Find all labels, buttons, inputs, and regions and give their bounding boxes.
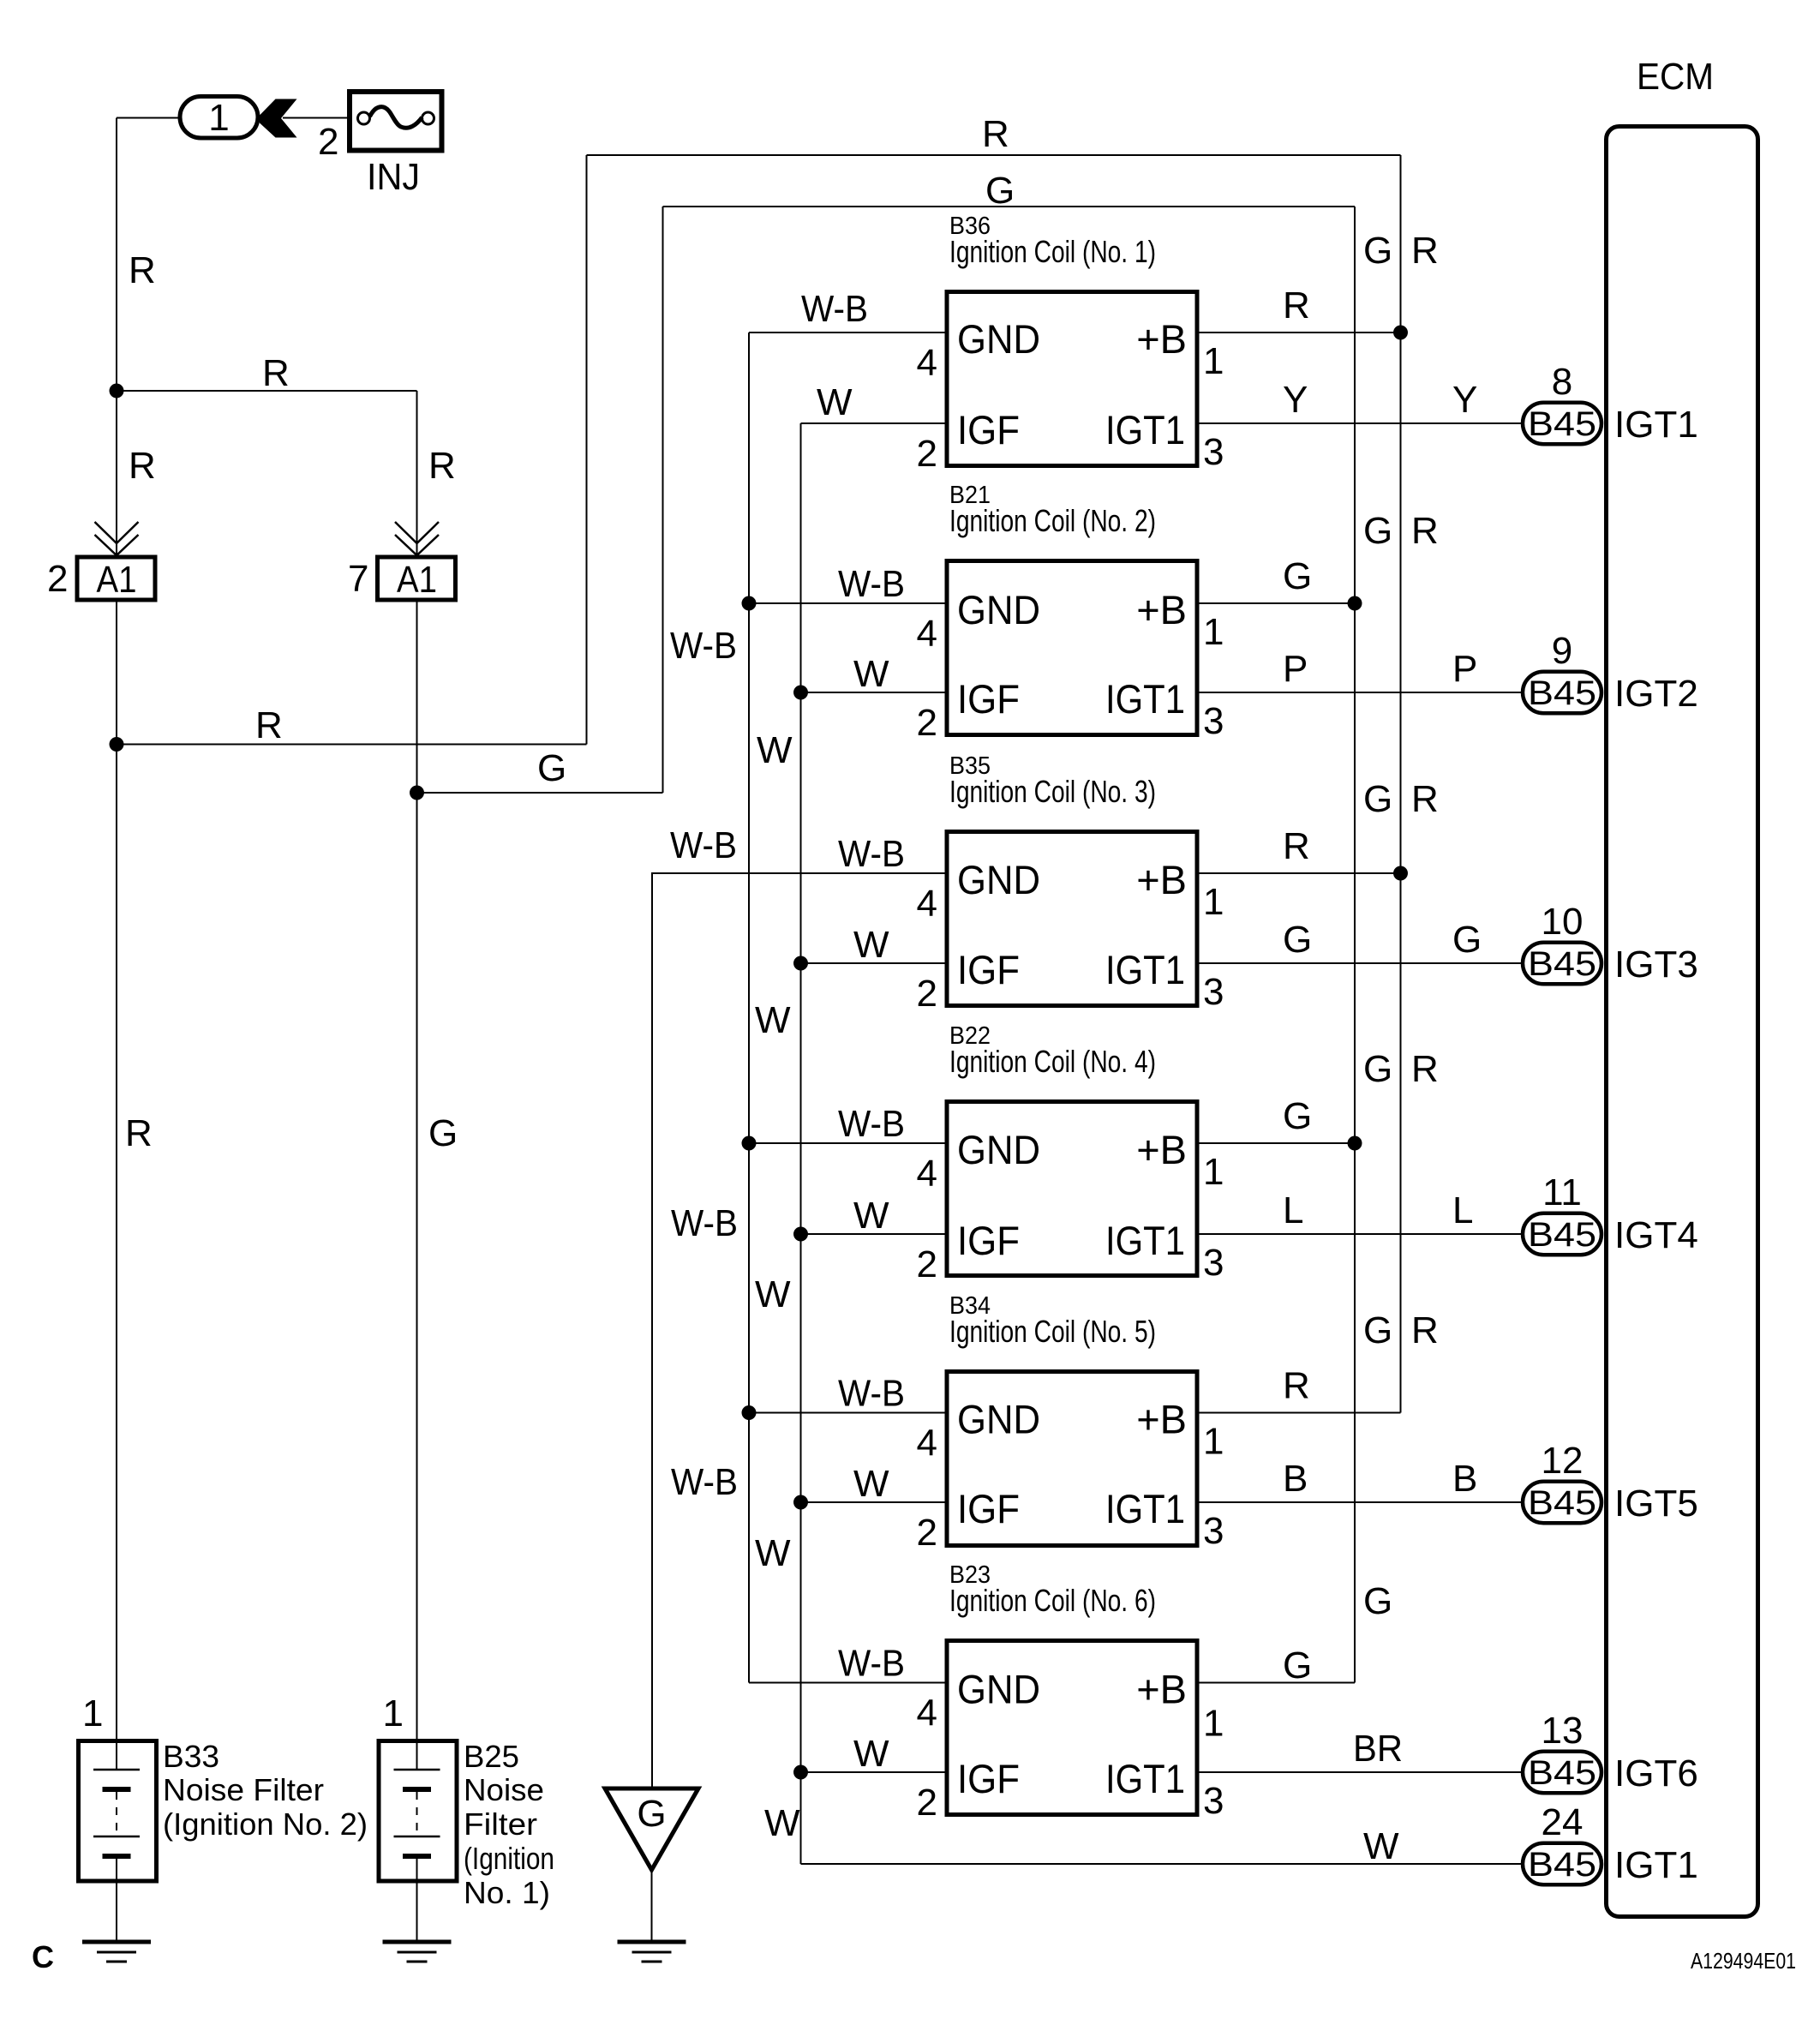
svg-text:W-B: W-B bbox=[670, 824, 737, 866]
svg-text:GND: GND bbox=[957, 1667, 1040, 1712]
connector A1 (pin 7) bbox=[378, 557, 456, 600]
svg-text:G: G bbox=[637, 1793, 666, 1835]
ground symbol under triangle bbox=[618, 1940, 686, 1944]
svg-text:+B: +B bbox=[1136, 1667, 1187, 1712]
connector pill 1 (fuse link) bbox=[180, 97, 258, 139]
wire W-B to GND bbox=[749, 602, 947, 604]
node G bus / coil4 +B bbox=[1348, 1136, 1362, 1151]
svg-text:B45: B45 bbox=[1528, 1754, 1596, 1792]
svg-text:IGT2: IGT2 bbox=[1614, 673, 1698, 715]
ignition coil B34 (No. 5) bbox=[947, 1372, 1197, 1546]
noise filter B25 box bbox=[379, 1741, 457, 1882]
connector pill B45 pin 8 bbox=[1523, 403, 1601, 445]
fuse element symbol bbox=[358, 112, 370, 124]
svg-text:3: 3 bbox=[1203, 431, 1224, 473]
node R bus / coil1 +B bbox=[1393, 326, 1408, 340]
wire arrow to INJ fuse bbox=[283, 117, 348, 119]
svg-text:R: R bbox=[1411, 778, 1439, 820]
svg-text:4: 4 bbox=[917, 1153, 937, 1195]
wire A1-2 down to noise filter B33 bbox=[116, 602, 117, 1740]
svg-text:1: 1 bbox=[1203, 1421, 1224, 1463]
node G bus / coil2 +B bbox=[1348, 596, 1362, 611]
capacitor symbol inside B25 bbox=[416, 1739, 418, 1770]
svg-text:W: W bbox=[755, 1273, 791, 1315]
svg-text:R: R bbox=[125, 1112, 153, 1154]
svg-text:ECM: ECM bbox=[1637, 56, 1714, 98]
svg-text:4: 4 bbox=[917, 1423, 937, 1465]
svg-text:R: R bbox=[1411, 510, 1439, 552]
svg-text:W: W bbox=[853, 1733, 889, 1775]
svg-text:2: 2 bbox=[917, 1243, 937, 1285]
wire G from +B to bus bbox=[1197, 1682, 1355, 1684]
svg-text:Ignition Coil (No. 2): Ignition Coil (No. 2) bbox=[949, 503, 1156, 538]
wire R riser up bbox=[586, 155, 588, 745]
svg-text:W: W bbox=[853, 653, 889, 695]
svg-text:+B: +B bbox=[1136, 857, 1187, 902]
node W-B bus / coil5 GND bbox=[742, 1405, 757, 1420]
ignition coil B23 (No. 6) bbox=[947, 1641, 1197, 1815]
svg-text:3: 3 bbox=[1203, 1780, 1224, 1822]
svg-text:Noise: Noise bbox=[464, 1772, 544, 1807]
svg-text:IGF: IGF bbox=[957, 1218, 1020, 1263]
svg-text:P: P bbox=[1452, 648, 1477, 690]
svg-text:L: L bbox=[1283, 1189, 1303, 1231]
svg-text:1: 1 bbox=[1203, 1703, 1224, 1745]
node W bus / coil3 IGF bbox=[793, 956, 808, 971]
svg-text:W-B: W-B bbox=[671, 1461, 738, 1503]
wire W to IGF bbox=[801, 1233, 948, 1235]
svg-text:IGF: IGF bbox=[957, 676, 1020, 722]
svg-text:IGT6: IGT6 bbox=[1614, 1752, 1698, 1794]
svg-text:W: W bbox=[853, 924, 889, 966]
wire W to IGF bbox=[801, 692, 948, 693]
svg-text:IGT3: IGT3 bbox=[1614, 944, 1698, 986]
svg-text:1: 1 bbox=[1203, 340, 1224, 382]
svg-text:G: G bbox=[1283, 1645, 1312, 1687]
wire W-B to GND bbox=[749, 1682, 947, 1684]
svg-text:Ignition Coil (No. 6): Ignition Coil (No. 6) bbox=[949, 1583, 1156, 1618]
connector pill B45 pin 10 bbox=[1523, 943, 1601, 985]
svg-text:GND: GND bbox=[957, 1397, 1040, 1442]
capacitor symbol inside B33 bbox=[116, 1739, 117, 1770]
svg-text:4: 4 bbox=[917, 1692, 937, 1734]
svg-text:3: 3 bbox=[1203, 1242, 1224, 1284]
node junction G bbox=[410, 786, 424, 800]
svg-text:B: B bbox=[1452, 1458, 1477, 1500]
svg-text:G: G bbox=[1363, 1580, 1392, 1622]
ignition coil B36 (No. 1) bbox=[947, 292, 1197, 466]
svg-text:BR: BR bbox=[1353, 1728, 1403, 1770]
connector pill B45 pin 12 bbox=[1523, 1482, 1601, 1524]
node W bus / coil2 IGF bbox=[793, 686, 808, 700]
svg-text:G: G bbox=[537, 747, 566, 789]
ignition coil B22 (No. 4) bbox=[947, 1102, 1197, 1276]
svg-text:Ignition Coil (No. 5): Ignition Coil (No. 5) bbox=[949, 1314, 1156, 1349]
node W bus / coil5 IGF bbox=[793, 1495, 808, 1510]
wire R bus vertical bbox=[1400, 155, 1402, 1413]
svg-text:IGT4: IGT4 bbox=[1614, 1214, 1698, 1256]
svg-text:B25: B25 bbox=[464, 1739, 519, 1774]
svg-text:W: W bbox=[757, 729, 793, 771]
svg-text:G: G bbox=[1283, 919, 1312, 961]
connector pill B45 pin 24 bbox=[1523, 1843, 1601, 1885]
svg-text:B45: B45 bbox=[1528, 1846, 1596, 1884]
node junction R split bbox=[110, 384, 124, 398]
svg-text:2: 2 bbox=[917, 1782, 937, 1824]
svg-text:W: W bbox=[817, 381, 853, 423]
svg-text:10: 10 bbox=[1542, 901, 1584, 943]
svg-text:W: W bbox=[755, 999, 791, 1041]
wire R from +B to bus bbox=[1197, 872, 1401, 874]
svg-text:G: G bbox=[1283, 1095, 1312, 1137]
wire down into A1 7 bbox=[416, 391, 418, 554]
wire R top horizontal bbox=[587, 154, 1401, 156]
svg-text:3: 3 bbox=[1203, 700, 1224, 742]
svg-text:INJ: INJ bbox=[367, 156, 420, 198]
svg-text:1: 1 bbox=[383, 1692, 404, 1734]
svg-text:3: 3 bbox=[1203, 1510, 1224, 1552]
svg-text:G: G bbox=[1363, 1048, 1392, 1090]
svg-text:W-B: W-B bbox=[838, 563, 905, 605]
wire from IGT1 to ECM pill bbox=[1197, 1233, 1523, 1235]
svg-text:R: R bbox=[129, 445, 156, 487]
node W-B bus / coil2 GND bbox=[742, 596, 757, 611]
svg-text:R: R bbox=[129, 249, 156, 291]
svg-text:IGT1: IGT1 bbox=[1105, 1486, 1185, 1531]
ignition coil B21 (No. 2) bbox=[947, 561, 1197, 735]
svg-text:Y: Y bbox=[1452, 379, 1477, 421]
svg-text:C: C bbox=[32, 1939, 54, 1974]
connector pill B45 pin 9 bbox=[1523, 672, 1601, 714]
svg-text:1: 1 bbox=[1203, 1151, 1224, 1193]
wire W to IGF bbox=[801, 962, 948, 964]
svg-text:GND: GND bbox=[957, 316, 1040, 362]
svg-text:L: L bbox=[1452, 1189, 1473, 1231]
ground symbol under B33 bbox=[82, 1940, 151, 1944]
svg-text:Ignition Coil (No. 4): Ignition Coil (No. 4) bbox=[949, 1044, 1156, 1079]
wire from IGT1 to ECM pill bbox=[1197, 692, 1523, 693]
connector pill B45 pin 11 bbox=[1523, 1213, 1601, 1255]
svg-text:P: P bbox=[1283, 648, 1308, 690]
svg-text:W: W bbox=[853, 1463, 889, 1505]
wire W-B left branch down to ground G bbox=[651, 872, 653, 1788]
wire G top horizontal bbox=[663, 206, 1356, 207]
wire G from +B to bus bbox=[1197, 602, 1355, 604]
svg-text:13: 13 bbox=[1542, 1710, 1584, 1752]
wire W-B bus vertical bbox=[748, 333, 750, 1683]
wire R horizontal to riser bbox=[117, 744, 587, 746]
connector pill B45 pin 13 bbox=[1523, 1752, 1601, 1794]
svg-text:B45: B45 bbox=[1528, 1484, 1596, 1522]
svg-text:W-B: W-B bbox=[670, 625, 737, 667]
wire R from +B to bus bbox=[1197, 1412, 1401, 1414]
svg-text:GND: GND bbox=[957, 1127, 1040, 1172]
svg-text:W: W bbox=[1363, 1825, 1399, 1867]
svg-text:G: G bbox=[1363, 778, 1392, 820]
svg-text:A1: A1 bbox=[97, 559, 137, 601]
svg-text:2: 2 bbox=[47, 558, 68, 600]
svg-text:IGT5: IGT5 bbox=[1614, 1483, 1698, 1525]
svg-text:R: R bbox=[1411, 1048, 1439, 1090]
svg-text:G: G bbox=[1363, 1309, 1392, 1351]
wire from IGT1 to ECM pill bbox=[1197, 1501, 1523, 1503]
wire A1-7 down to noise filter B25 bbox=[416, 602, 418, 1740]
arrow into connector A1 pin 7 bbox=[395, 522, 439, 543]
wire fuse pill to left riser bbox=[117, 117, 178, 119]
wire from IGT1 to ECM pill bbox=[1197, 1771, 1523, 1773]
svg-text:Y: Y bbox=[1283, 379, 1308, 421]
svg-text:B45: B45 bbox=[1528, 674, 1596, 712]
svg-text:A129494E01: A129494E01 bbox=[1691, 1948, 1796, 1974]
wire W-B to GND bbox=[652, 872, 947, 874]
svg-text:B: B bbox=[1283, 1458, 1308, 1500]
svg-text:W-B: W-B bbox=[671, 1202, 738, 1244]
wire G horizontal to riser bbox=[417, 792, 663, 794]
svg-text:IGF: IGF bbox=[957, 1486, 1020, 1531]
svg-text:G: G bbox=[985, 170, 1015, 212]
wire W-B to GND bbox=[749, 332, 947, 333]
ground triangle G bbox=[605, 1788, 698, 1870]
svg-text:4: 4 bbox=[917, 613, 937, 655]
svg-text:GND: GND bbox=[957, 857, 1040, 902]
svg-text:8: 8 bbox=[1552, 361, 1572, 403]
svg-text:3: 3 bbox=[1203, 971, 1224, 1013]
wire W to IGF bbox=[801, 422, 948, 424]
svg-text:B33: B33 bbox=[163, 1739, 219, 1774]
svg-text:IGT1: IGT1 bbox=[1105, 676, 1185, 722]
wire triangle to ground bbox=[651, 1870, 653, 1942]
svg-text:R: R bbox=[1411, 230, 1439, 272]
wire W bottom to ECM pill 24 bbox=[801, 1863, 1524, 1865]
wire from IGT1 to ECM pill bbox=[1197, 422, 1523, 424]
svg-text:W-B: W-B bbox=[838, 1373, 905, 1415]
wire W bus vertical bbox=[800, 423, 802, 1864]
wire G bus vertical bbox=[1354, 207, 1356, 1683]
svg-text:No. 1): No. 1) bbox=[464, 1875, 550, 1910]
svg-text:W-B: W-B bbox=[838, 1643, 905, 1685]
svg-text:Ignition Coil (No. 3): Ignition Coil (No. 3) bbox=[949, 774, 1156, 809]
svg-text:R: R bbox=[1283, 285, 1310, 327]
arrow into connector A1 pin 2 bbox=[95, 522, 139, 543]
svg-text:B45: B45 bbox=[1528, 945, 1596, 983]
svg-text:Noise Filter: Noise Filter bbox=[163, 1772, 324, 1807]
wire G riser up bbox=[662, 207, 664, 793]
wire R from +B to bus bbox=[1197, 332, 1401, 333]
svg-text:12: 12 bbox=[1542, 1440, 1584, 1482]
svg-text:R: R bbox=[1283, 1365, 1310, 1407]
svg-text:B45: B45 bbox=[1528, 1216, 1596, 1254]
svg-text:IGT1: IGT1 bbox=[1105, 1756, 1185, 1801]
svg-text:IGF: IGF bbox=[957, 407, 1020, 452]
svg-text:R: R bbox=[1411, 1309, 1439, 1351]
wire from IGT1 to ECM pill bbox=[1197, 962, 1523, 964]
svg-text:IGT1: IGT1 bbox=[1105, 1218, 1185, 1263]
svg-text:W: W bbox=[764, 1802, 800, 1844]
fuse INJ box bbox=[350, 92, 442, 151]
noise filter B33 box bbox=[79, 1741, 157, 1882]
svg-text:2: 2 bbox=[917, 973, 937, 1015]
node junction R to riser bbox=[110, 737, 124, 752]
svg-text:W-B: W-B bbox=[838, 1103, 905, 1145]
svg-text:R: R bbox=[1283, 825, 1310, 867]
svg-text:W-B: W-B bbox=[801, 288, 868, 330]
wire W-B to GND bbox=[749, 1412, 947, 1414]
svg-text:+B: +B bbox=[1136, 1397, 1187, 1442]
svg-text:G: G bbox=[1363, 230, 1392, 272]
connector arrow (female terminal) bbox=[260, 99, 297, 138]
svg-text:1: 1 bbox=[82, 1692, 103, 1734]
svg-text:9: 9 bbox=[1552, 630, 1572, 672]
svg-text:W-B: W-B bbox=[838, 833, 905, 875]
wire W to IGF bbox=[801, 1501, 948, 1503]
svg-text:1: 1 bbox=[208, 97, 229, 139]
ground symbol under B25 bbox=[383, 1940, 452, 1944]
svg-text:2: 2 bbox=[917, 702, 937, 744]
wire G from +B to bus bbox=[1197, 1142, 1355, 1144]
svg-text:4: 4 bbox=[917, 342, 937, 384]
svg-text:IGF: IGF bbox=[957, 1756, 1020, 1801]
svg-text:W: W bbox=[755, 1532, 791, 1574]
svg-text:2: 2 bbox=[318, 121, 338, 163]
wire W-B to GND bbox=[749, 1142, 947, 1144]
node W bus / coil4 IGF bbox=[793, 1227, 808, 1242]
svg-text:IGT1: IGT1 bbox=[1105, 407, 1185, 452]
svg-text:Ignition Coil (No. 1): Ignition Coil (No. 1) bbox=[949, 234, 1156, 269]
svg-text:R: R bbox=[982, 113, 1009, 155]
svg-text:G: G bbox=[1452, 919, 1482, 961]
ECM box bbox=[1607, 127, 1758, 1917]
wire to ground bbox=[416, 1884, 418, 1943]
svg-text:1: 1 bbox=[1203, 611, 1224, 653]
svg-text:R: R bbox=[428, 445, 456, 487]
svg-text:1: 1 bbox=[1203, 881, 1224, 923]
node W-B bus / coil4 GND bbox=[742, 1136, 757, 1151]
svg-text:(Ignition: (Ignition bbox=[464, 1841, 554, 1876]
svg-text:+B: +B bbox=[1136, 316, 1187, 362]
svg-text:G: G bbox=[1283, 555, 1312, 597]
svg-text:2: 2 bbox=[917, 1512, 937, 1554]
wire W to IGF bbox=[801, 1771, 948, 1773]
svg-text:7: 7 bbox=[348, 558, 368, 600]
svg-text:IGT1: IGT1 bbox=[1614, 1844, 1698, 1886]
wire to ground bbox=[116, 1884, 117, 1943]
svg-text:+B: +B bbox=[1136, 1127, 1187, 1172]
node R bus / coil3 +B bbox=[1393, 866, 1408, 881]
wire R branch to A1 connector 7 bbox=[117, 390, 417, 392]
svg-text:A1: A1 bbox=[397, 559, 437, 601]
svg-text:IGT1: IGT1 bbox=[1614, 404, 1698, 446]
svg-text:+B: +B bbox=[1136, 587, 1187, 632]
svg-text:W: W bbox=[853, 1195, 889, 1237]
svg-text:R: R bbox=[255, 704, 283, 746]
svg-text:G: G bbox=[428, 1112, 458, 1154]
connector A1 (pin 2) bbox=[77, 557, 155, 600]
ignition coil B35 (No. 3) bbox=[947, 832, 1197, 1006]
svg-text:(Ignition No. 2): (Ignition No. 2) bbox=[163, 1806, 368, 1842]
svg-text:24: 24 bbox=[1542, 1801, 1584, 1843]
svg-text:Filter: Filter bbox=[464, 1806, 537, 1842]
svg-text:B45: B45 bbox=[1528, 405, 1596, 443]
svg-text:4: 4 bbox=[917, 883, 937, 925]
svg-text:G: G bbox=[1363, 510, 1392, 552]
svg-text:R: R bbox=[262, 352, 290, 394]
wire R: fuse down to A1 connector 2 bbox=[116, 118, 117, 555]
svg-text:IGF: IGF bbox=[957, 947, 1020, 992]
node W bus / coil6 IGF bbox=[793, 1765, 808, 1780]
svg-text:11: 11 bbox=[1542, 1171, 1582, 1213]
svg-text:GND: GND bbox=[957, 587, 1040, 632]
svg-text:2: 2 bbox=[917, 433, 937, 475]
svg-text:IGT1: IGT1 bbox=[1105, 947, 1185, 992]
